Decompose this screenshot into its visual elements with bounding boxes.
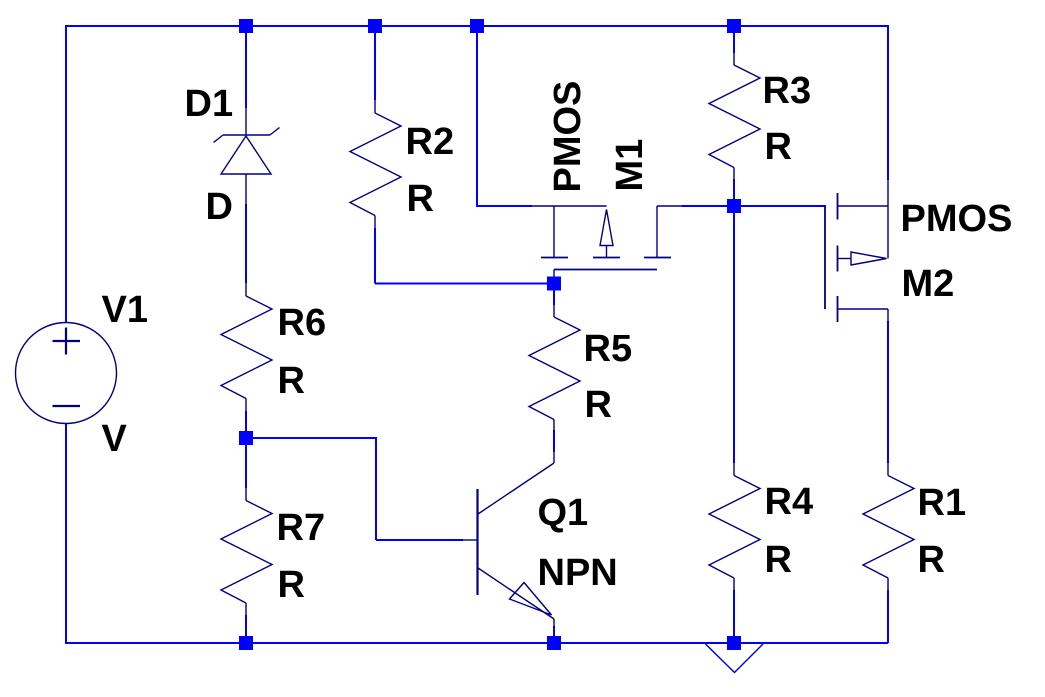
M1 drain terminal vertical xyxy=(656,206,658,258)
Q1 collector vertical stub xyxy=(553,452,555,463)
M1 gate lead stub xyxy=(553,270,555,281)
resistor R3 top lead xyxy=(733,52,735,65)
wire top rail xyxy=(66,25,888,27)
PMOS M1 source lead horizontal xyxy=(531,205,607,207)
NPN Q1 base bar xyxy=(476,489,478,595)
M1 bulk stub xyxy=(606,246,608,258)
junction node R6-R7 / Q1 base xyxy=(239,431,253,445)
M2 source lead xyxy=(838,308,889,310)
wire R1 to bottom rail xyxy=(887,590,889,643)
M1 gate bar xyxy=(554,269,657,271)
svg-text:Q1: Q1 xyxy=(538,492,589,534)
resistor R6 top lead xyxy=(245,283,247,296)
M1 drain lead horizontal xyxy=(657,205,683,207)
resistor R5 bottom lead xyxy=(553,420,555,433)
junction node M1 gate / R2 / R5 xyxy=(547,277,561,291)
resistor R6 body zigzag xyxy=(221,296,272,399)
zener diode D1 cathode pin xyxy=(245,108,247,135)
M2 drain rail stub xyxy=(887,180,889,259)
M2 source channel segment xyxy=(837,296,839,322)
svg-text:D1: D1 xyxy=(185,83,234,125)
ground symbol xyxy=(706,644,764,673)
resistor R7 bottom lead xyxy=(245,603,247,616)
junction bottom rail / R4 / ground xyxy=(727,636,741,650)
resistor R1 body zigzag xyxy=(863,476,914,579)
svg-text:R5: R5 xyxy=(584,328,633,370)
junction top rail / R2 xyxy=(368,19,382,33)
M1 drain channel bar xyxy=(644,257,671,259)
svg-text:R: R xyxy=(765,126,792,168)
resistor R1 top lead xyxy=(887,463,889,476)
junction bottom rail / R7 xyxy=(239,636,253,650)
wire R7 to bottom rail xyxy=(245,615,247,643)
svg-text:R: R xyxy=(407,178,434,220)
Q1 emitter vertical stub xyxy=(553,619,555,628)
wire node junction to R7 xyxy=(245,438,247,488)
svg-text:M2: M2 xyxy=(902,263,955,305)
junction top rail / M1 xyxy=(470,19,484,33)
svg-text:NPN: NPN xyxy=(538,552,618,594)
junction bottom rail / Q1 emitter xyxy=(547,636,561,650)
resistor R1 bottom lead xyxy=(887,578,889,591)
wire top rail to M1 source vertical xyxy=(476,26,478,207)
D1 cathode bar right hook xyxy=(270,128,280,136)
resistor R7 body zigzag xyxy=(221,501,272,604)
M1 source channel bar xyxy=(541,257,568,259)
junction top rail / R3 xyxy=(727,19,741,33)
wire R2 bottom vertical xyxy=(374,228,376,284)
svg-text:D: D xyxy=(206,186,233,228)
wire right edge (top rail to M2 drain) xyxy=(887,25,889,180)
svg-text:R: R xyxy=(585,384,612,426)
Q1 base lead xyxy=(463,539,478,541)
wire node down to R4 xyxy=(733,206,735,463)
svg-text:R3: R3 xyxy=(763,70,812,112)
M2 middle channel segment xyxy=(837,246,839,272)
svg-text:R4: R4 xyxy=(765,481,814,523)
D1 cathode bar left hook xyxy=(214,135,224,143)
resistor R2 top lead xyxy=(374,100,376,113)
resistor R4 body zigzag xyxy=(709,476,760,579)
svg-text:M1: M1 xyxy=(609,139,651,192)
M1 bulk arrow (pointing up) xyxy=(600,210,613,246)
svg-text:R: R xyxy=(765,539,792,581)
resistor R6 bottom lead xyxy=(245,399,247,412)
V1 minus sign xyxy=(53,405,81,407)
wire Q1 base vertical xyxy=(375,437,377,540)
Q1 emitter arrow xyxy=(510,583,552,616)
M2 drain channel segment xyxy=(837,193,839,220)
Q1 collector diagonal xyxy=(478,463,554,514)
wire Q1 base lead-in xyxy=(376,539,463,541)
wire top rail to R3 xyxy=(733,26,735,53)
wire M1 source horizontal xyxy=(476,205,532,207)
M1 source terminal vertical xyxy=(553,206,555,258)
wire M1 gate junction to R5 xyxy=(553,284,555,306)
M2 bulk arrow (pointing right) xyxy=(851,252,887,265)
resistor R3 bottom lead xyxy=(733,168,735,181)
wire top rail to D1 cathode xyxy=(245,26,247,108)
voltage source V1 circle xyxy=(16,323,117,424)
V1 plus sign xyxy=(53,340,81,342)
svg-text:R: R xyxy=(278,564,305,606)
junction top rail / D1 xyxy=(239,19,253,33)
PMOS M2 gate bar xyxy=(824,206,826,309)
svg-text:PMOS: PMOS xyxy=(547,81,589,193)
wire top rail to R2 xyxy=(374,26,376,100)
svg-text:V1: V1 xyxy=(102,289,148,331)
resistor R2 body zigzag xyxy=(350,113,401,216)
D1 anode pin xyxy=(245,174,247,205)
wire junction to Q1 base horizontal xyxy=(245,437,376,439)
Q1 emitter diagonal xyxy=(478,568,554,619)
M2 source rail stub xyxy=(887,309,889,322)
D1 cathode bar xyxy=(223,134,270,136)
resistor R4 bottom lead xyxy=(733,578,735,591)
resistor R2 bottom lead xyxy=(374,216,376,229)
wire R2 to M1 gate junction xyxy=(375,283,549,285)
wire R4 to bottom rail xyxy=(733,590,735,643)
svg-text:R1: R1 xyxy=(918,482,967,524)
resistor R7 top lead xyxy=(245,488,247,501)
svg-text:V: V xyxy=(102,418,128,460)
wire node to M2 gate xyxy=(734,205,826,207)
wire R6 to node junction xyxy=(245,411,247,438)
wire M2 source down to R1 xyxy=(887,321,889,463)
wire Q1 emitter to bottom rail xyxy=(553,626,555,643)
resistor R4 top lead xyxy=(733,463,735,476)
svg-text:R6: R6 xyxy=(278,302,327,344)
resistor R3 body zigzag xyxy=(709,65,760,168)
D1 anode triangle xyxy=(221,136,271,174)
wire left edge lower (V1 minus to bottom rail) xyxy=(65,423,67,644)
junction node R3-R4-M1-M2 gate xyxy=(727,199,741,213)
svg-text:R7: R7 xyxy=(277,507,326,549)
wire left edge upper (V1 plus to top rail) xyxy=(65,25,67,323)
svg-text:R2: R2 xyxy=(406,121,455,163)
svg-text:PMOS: PMOS xyxy=(901,198,1013,240)
M2 bulk arrow line xyxy=(838,258,852,260)
wire R5 to Q1 collector xyxy=(553,430,555,452)
svg-text:R: R xyxy=(918,539,945,581)
wire D1 anode to R6 xyxy=(245,204,247,283)
wire M1 drain to node xyxy=(682,205,734,207)
resistor R5 top lead xyxy=(553,304,555,317)
svg-text:R: R xyxy=(278,360,305,402)
wire bottom rail xyxy=(65,642,888,644)
M2 drain lead xyxy=(838,205,889,207)
wire R3 to node junction xyxy=(733,179,735,207)
M1 middle channel bar xyxy=(593,257,620,259)
resistor R5 body zigzag xyxy=(529,317,580,420)
